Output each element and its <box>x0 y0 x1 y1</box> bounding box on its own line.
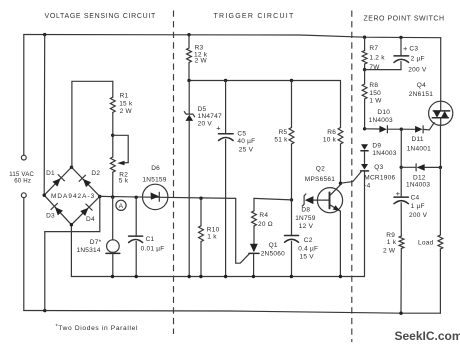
svg-text:20 V: 20 V <box>198 121 213 128</box>
node: C1 tap <box>135 196 138 199</box>
svg-text:1N4747: 1N4747 <box>198 113 222 120</box>
wire AC line 1 (left terminal to top rail) <box>23 35 25 156</box>
resistor R10 <box>200 198 202 226</box>
svg-text:2 W: 2 W <box>195 58 208 65</box>
svg-text:C3: C3 <box>409 46 418 53</box>
SCR Q1 2N5060 <box>253 226 255 244</box>
svg-text:2 µF: 2 µF <box>411 56 425 63</box>
svg-text:Q1: Q1 <box>269 242 278 249</box>
svg-text:1 k: 1 k <box>207 233 217 240</box>
node: bridge left vertex <box>43 194 46 197</box>
node: R9 bottom <box>399 312 402 315</box>
capacitor C5 40uF <box>225 81 227 134</box>
svg-text:D12: D12 <box>413 174 426 181</box>
svg-text:1N5314: 1N5314 <box>77 247 101 254</box>
diode D10 1N4003 <box>365 128 380 130</box>
node: bus junction <box>111 275 114 278</box>
wire rail to bridge left vertex <box>43 35 46 195</box>
svg-text:MCR1906: MCR1906 <box>364 175 395 182</box>
node: C3 top <box>399 36 402 39</box>
divider dashed line 1 <box>173 11 175 335</box>
svg-text:C2: C2 <box>304 237 313 244</box>
diode D12 1N4003 (points left) <box>401 166 416 168</box>
node: bus junction <box>290 275 293 278</box>
terminal: 115 VAC bottom <box>21 193 26 198</box>
node: R10 tap <box>199 197 202 200</box>
terminal: 115 VAC top <box>21 155 26 160</box>
svg-text:1 W: 1 W <box>369 98 382 105</box>
svg-text:R7: R7 <box>369 45 378 52</box>
svg-text:C1: C1 <box>146 236 155 243</box>
svg-text:200 V: 200 V <box>408 67 427 74</box>
resistor R3 <box>188 35 190 48</box>
resistor R5 <box>291 81 293 128</box>
svg-text:R5: R5 <box>279 129 288 136</box>
wire R7 bottom to C3 bottom <box>365 69 401 71</box>
svg-text:20 Ω: 20 Ω <box>258 221 273 228</box>
wire top AC rail <box>24 35 441 38</box>
svg-text:150: 150 <box>369 90 381 97</box>
svg-text:25 V: 25 V <box>239 146 254 153</box>
svg-text:R4: R4 <box>259 212 268 219</box>
node: sub-rail at R5 <box>290 79 293 82</box>
svg-text:1 k: 1 k <box>387 239 397 246</box>
svg-text:15 V: 15 V <box>300 253 315 260</box>
svg-text:D10: D10 <box>377 109 390 116</box>
bridge rectifier MDA942A-3 diamond <box>44 167 100 225</box>
svg-text:2N5060: 2N5060 <box>261 251 285 258</box>
node: D12/load junction <box>439 166 442 169</box>
svg-text:1N759: 1N759 <box>295 215 316 222</box>
svg-text:1N4003: 1N4003 <box>369 117 393 124</box>
resistor R8 <box>364 70 366 84</box>
node: R3 top <box>187 33 190 36</box>
svg-text:0.4 µF: 0.4 µF <box>298 246 318 253</box>
svg-text:12 V: 12 V <box>299 223 314 230</box>
svg-text:10 k: 10 k <box>323 137 337 144</box>
svg-text:D4: D4 <box>86 216 95 223</box>
diode D6 1N5159 <box>143 184 168 209</box>
svg-text:D1: D1 <box>46 170 55 177</box>
svg-text:D6: D6 <box>151 165 160 172</box>
diode D7 (1N5314 current regulator) <box>112 197 114 240</box>
svg-text:1N5159: 1N5159 <box>142 176 166 183</box>
svg-text:1N4001: 1N4001 <box>407 146 431 153</box>
svg-text:Q2: Q2 <box>316 166 325 173</box>
node: rail tap to bridge <box>43 33 46 36</box>
divider dashed line 2 <box>351 11 353 343</box>
svg-text:C4: C4 <box>411 195 420 202</box>
resistor R1 <box>112 81 114 97</box>
svg-text:2 W: 2 W <box>120 108 133 115</box>
diode D9 1N4003 <box>361 144 368 150</box>
zener D5 1N4747 <box>188 81 190 114</box>
svg-text:2 W: 2 W <box>383 248 396 255</box>
svg-text:D9: D9 <box>372 143 381 150</box>
node: Q2 collector / R6 / Q3 gate <box>339 182 342 185</box>
node: bottom rail junction <box>43 309 46 312</box>
svg-text:1N4003: 1N4003 <box>372 150 396 157</box>
node: bridge bottom vertex <box>70 223 73 226</box>
capacitor C4 1uF <box>400 167 402 197</box>
node: D10/D11/C4 junction <box>400 128 403 131</box>
svg-text:1N4003: 1N4003 <box>406 181 430 188</box>
svg-text:A: A <box>119 203 124 210</box>
resistor R6 <box>340 81 342 128</box>
svg-text:15 k: 15 k <box>119 101 133 108</box>
wire R2 to sense rail <box>112 172 114 197</box>
resistor R2 (rheostat) <box>110 157 115 172</box>
wire Q2 collector to Q3 gate <box>341 172 362 183</box>
node: C4/D12 junction <box>400 166 403 169</box>
svg-text:SeekIC.com: SeekIC.com <box>395 329 460 343</box>
svg-text:C5: C5 <box>237 131 246 138</box>
resistor R7 <box>364 37 366 50</box>
svg-text:MDA942A-3: MDA942A-3 <box>51 193 95 200</box>
wire bridge top vertex to R1 <box>72 81 113 167</box>
node: D7 tap <box>111 195 114 198</box>
wire R4 top line <box>254 198 292 200</box>
wire sense rail <box>100 196 236 198</box>
wire bridge bottom vertex to common bus <box>70 225 72 277</box>
node: R7 bottom <box>363 68 366 71</box>
zener D8 1N759 <box>302 194 306 206</box>
diode D4 (bridge lower-right) <box>80 204 93 217</box>
svg-text:1.2 k: 1.2 k <box>369 55 385 62</box>
node: bus junction <box>188 275 191 278</box>
node: R2 wiper tap <box>111 134 114 137</box>
node: sub-rail at C5 <box>224 79 227 82</box>
svg-text:D2: D2 <box>91 170 100 177</box>
capacitor C2 <box>291 200 293 236</box>
wire bottom AC rail <box>24 311 441 314</box>
node: bus junction <box>252 275 255 278</box>
svg-text:60 Hz: 60 Hz <box>14 178 31 185</box>
resistor Load <box>438 235 443 249</box>
svg-text:Q4: Q4 <box>417 82 426 89</box>
svg-text:-4: -4 <box>364 182 370 189</box>
svg-text:R1: R1 <box>120 92 129 99</box>
svg-text:51 k: 51 k <box>274 137 288 144</box>
capacitor C3 2uF <box>400 37 402 56</box>
transistor Q2 MPS6561 <box>317 188 342 213</box>
node: R8 bottom / D9 / D10 <box>363 127 366 130</box>
svg-text:+: + <box>216 124 221 133</box>
SCR Q3 MCR1906-4 <box>361 164 368 170</box>
svg-text:D3: D3 <box>46 213 55 220</box>
triac Q4 2N6151 <box>429 101 453 125</box>
svg-text:5 k: 5 k <box>119 177 129 184</box>
node: sub-rail at R3/D5 <box>187 79 190 82</box>
node A <box>116 200 126 210</box>
wire AC line 2 (left terminal down) <box>23 198 25 311</box>
wire top rail down to Q4 MT2 <box>440 38 442 102</box>
node: bus junction <box>135 275 138 278</box>
svg-text:+: + <box>396 189 401 198</box>
capacitor C1 <box>135 197 137 236</box>
svg-text:MPS6561: MPS6561 <box>305 176 335 183</box>
svg-text:D8: D8 <box>301 207 310 214</box>
svg-text:R6: R6 <box>327 129 336 136</box>
svg-text:D11: D11 <box>412 136 424 143</box>
svg-text:+: + <box>403 44 408 53</box>
node: R7 top <box>363 36 366 39</box>
svg-text:Load: Load <box>418 240 434 247</box>
node: bus junction <box>224 275 227 278</box>
diode D3 (bridge lower-left) <box>51 203 64 216</box>
svg-text:ZERO POINT SWITCH: ZERO POINT SWITCH <box>364 16 445 23</box>
node: bus junction <box>199 275 202 278</box>
resistor R9 <box>399 236 404 248</box>
svg-text:Q3: Q3 <box>374 164 383 171</box>
node: bridge top vertex <box>70 166 73 169</box>
svg-text:*Two Diodes in Parallel: *Two Diodes in Parallel <box>56 324 139 332</box>
node: bus junction <box>339 275 342 278</box>
svg-text:200 V: 200 V <box>409 212 428 219</box>
node: bridge right vertex <box>98 195 101 198</box>
diode D1 (bridge upper-left) <box>52 175 65 188</box>
wire sense rail to Q1 gate <box>236 198 250 263</box>
svg-text:0.01 µF: 0.01 µF <box>141 245 165 252</box>
node: R5/D8/C2 junction <box>290 198 293 201</box>
svg-text:R8: R8 <box>369 82 378 89</box>
resistor R4 <box>253 198 255 210</box>
wire R1 to R2 <box>112 112 114 157</box>
svg-text:TRIGGER CIRCUIT: TRIGGER CIRCUIT <box>214 13 295 20</box>
wire Q4 MT1 down <box>440 125 442 167</box>
svg-text:1 µF: 1 µF <box>411 203 425 210</box>
wire 20V sub-rail <box>189 80 341 82</box>
wire bridge right vertex loop to bottom rail <box>45 196 100 310</box>
diode D11 1N4001 <box>401 128 415 130</box>
svg-text:D7*: D7* <box>90 239 102 246</box>
svg-text:VOLTAGE SENSING CIRCUIT: VOLTAGE SENSING CIRCUIT <box>45 13 156 20</box>
wire D10-D11 node down to C4 <box>400 129 402 167</box>
diode D2 (bridge upper-right) <box>79 175 92 188</box>
wire DC common bus <box>71 276 364 278</box>
svg-text:2N6151: 2N6151 <box>409 91 433 98</box>
svg-text:40 µF: 40 µF <box>237 138 255 145</box>
